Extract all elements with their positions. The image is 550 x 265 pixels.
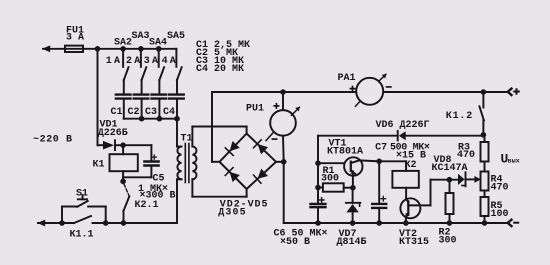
svg-text:3А: 3А <box>144 56 160 67</box>
label minus terminal <box>513 222 519 224</box>
transistor VT2 <box>400 180 430 223</box>
wire bottom AC line <box>38 222 74 224</box>
svg-text:3 А: 3 А <box>66 33 84 44</box>
node VT1-emitter <box>350 185 356 191</box>
wire secondary bottom to bridge <box>192 196 246 198</box>
node S1-left <box>59 220 65 226</box>
relay K1 <box>110 145 138 181</box>
wire bridge right <box>276 161 284 163</box>
node C6-bottom <box>315 220 321 226</box>
node base-branch <box>315 160 321 166</box>
contact K1.2 <box>479 92 484 135</box>
terminal output minus <box>508 220 512 226</box>
diode VD1 <box>103 140 123 150</box>
svg-text:КТ801А: КТ801А <box>327 146 363 157</box>
button S1 <box>62 195 106 223</box>
capacitor C5 <box>123 145 159 177</box>
node bus SA2 <box>120 46 126 52</box>
node R2-top <box>447 177 453 183</box>
switch SA3 <box>141 49 146 80</box>
node K1.2-bottom <box>481 132 487 138</box>
svg-text:вых: вых <box>508 158 520 166</box>
node bus-left <box>95 46 101 52</box>
svg-text:К2.1: К2.1 <box>135 200 159 211</box>
switch SA2 <box>123 49 128 80</box>
capacitor C1 <box>116 80 131 119</box>
node S1-right <box>103 220 109 226</box>
svg-text:C2: C2 <box>128 107 140 118</box>
svg-text:470: 470 <box>491 182 509 193</box>
svg-text:470: 470 <box>457 150 475 161</box>
node bus SA3 <box>138 46 144 52</box>
transformer T1 <box>177 119 197 223</box>
wire secondary top to bridge <box>192 126 246 128</box>
wire bridge left to +rail <box>212 161 220 163</box>
capacitor C3 <box>152 80 167 119</box>
svg-text:C7: C7 <box>375 143 387 154</box>
wire to C5 <box>123 144 151 146</box>
node bus SA4 <box>156 46 162 52</box>
contact K1.1 <box>74 216 91 223</box>
svg-text:PА1: PА1 <box>338 73 356 84</box>
svg-text:300: 300 <box>321 173 339 184</box>
svg-text:300: 300 <box>439 236 457 247</box>
svg-text:~220 В: ~220 В <box>33 134 73 145</box>
node R1-branch <box>315 185 321 191</box>
relay K2 <box>392 161 418 198</box>
svg-text:КТ315: КТ315 <box>399 237 429 248</box>
switch SA5 <box>176 49 181 80</box>
svg-text:Д305: Д305 <box>218 208 246 219</box>
svg-text:К1.1: К1.1 <box>70 229 94 240</box>
svg-text:SA4: SA4 <box>149 38 167 49</box>
diode VD3 <box>254 140 269 155</box>
wire left branch down <box>97 49 99 145</box>
capacitor C6 <box>311 198 326 223</box>
capacitor C7 <box>372 161 386 223</box>
svg-text:Д226Б: Д226Б <box>98 128 128 139</box>
node K2.1-bottom <box>121 220 127 226</box>
node VD1-K1 <box>120 142 126 148</box>
capacitor C4 <box>169 80 184 119</box>
svg-text:C3: C3 <box>145 107 157 118</box>
svg-text:VD6 Д226Г: VD6 Д226Г <box>376 120 430 131</box>
wire VT1 base <box>318 162 344 164</box>
wire VD6 line <box>318 135 397 137</box>
wire cap-bank bottom <box>124 118 177 120</box>
svg-text:4А: 4А <box>162 56 178 67</box>
resistor R3 <box>481 135 489 172</box>
resistor R4 <box>481 172 489 198</box>
svg-text:К1.2: К1.2 <box>446 111 473 122</box>
node C7-top <box>376 159 382 165</box>
zener VD8 <box>458 172 474 186</box>
svg-text:C4 20 МК: C4 20 МК <box>196 64 244 75</box>
svg-text:SA3: SA3 <box>132 31 150 42</box>
diode VD4 <box>225 168 240 183</box>
svg-text:2А: 2А <box>126 56 142 67</box>
meter PU1 <box>266 92 300 162</box>
node capbank-1 <box>139 116 145 122</box>
svg-text:1А: 1А <box>106 56 122 67</box>
svg-text:SA5: SA5 <box>167 31 185 42</box>
meter PA1 <box>355 74 386 106</box>
diode VD5 <box>254 168 269 183</box>
diode VD2 <box>225 141 240 156</box>
switch SA4 <box>159 49 164 80</box>
resistor R5 <box>481 197 489 223</box>
svg-text:К2: К2 <box>405 160 417 171</box>
arrow AC input bottom <box>37 220 45 227</box>
arrow AC input top <box>42 45 50 52</box>
svg-text:Д814Б: Д814Б <box>337 237 367 248</box>
transistor VT1 <box>344 157 379 187</box>
wire VT1 collector row <box>379 160 406 162</box>
wire VD8 row <box>431 179 459 181</box>
svg-text:×50 В: ×50 В <box>280 237 310 248</box>
terminal output plus <box>508 89 512 95</box>
node capbank-2 <box>157 116 163 122</box>
svg-text:К1: К1 <box>93 160 105 171</box>
node K1-bottom <box>120 179 126 185</box>
node bridge-plus <box>281 159 287 165</box>
node VD7-bottom <box>350 220 356 226</box>
wire +rail <box>212 91 356 93</box>
node capbank-3 <box>174 116 180 122</box>
resistor R1 <box>318 183 353 191</box>
wire top AC bus <box>43 48 176 50</box>
wire minus rail <box>283 162 285 223</box>
svg-text:PU1: PU1 <box>246 103 264 114</box>
fuse FU1 <box>65 46 83 52</box>
node VT2-emitter-bottom <box>403 220 409 226</box>
diode VD6 <box>398 131 406 141</box>
svg-text:S1: S1 <box>76 188 88 199</box>
contact K2.1 <box>124 184 130 223</box>
node C7-bottom <box>376 220 382 226</box>
resistor R2 <box>446 180 454 223</box>
capacitor C2 <box>134 80 149 119</box>
bridge VD2-VD5 <box>220 134 277 190</box>
node R5-bottom <box>482 220 488 226</box>
wire raw+ vertical <box>317 136 319 204</box>
svg-text:C1: C1 <box>111 107 123 118</box>
svg-text:КС147А: КС147А <box>432 163 468 174</box>
arrow into R4 <box>474 176 481 183</box>
svg-text:100: 100 <box>491 209 509 220</box>
node PU1-top <box>280 89 286 95</box>
label plus terminal <box>513 88 520 95</box>
svg-text:SA2: SA2 <box>114 38 132 49</box>
zener VD7 <box>346 188 360 223</box>
node R2-bottom <box>447 220 453 226</box>
node K1.2-top <box>481 89 487 95</box>
svg-text:C4: C4 <box>163 107 175 118</box>
svg-text:Т1: Т1 <box>181 133 193 144</box>
